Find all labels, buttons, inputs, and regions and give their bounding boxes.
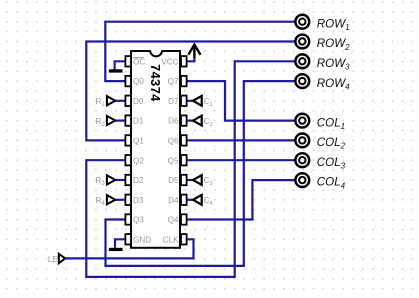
terminal COL4 [295, 173, 309, 187]
pin 9 Q3 [125, 214, 131, 224]
wire net ROW1 to Q0 [105, 22, 300, 81]
terminal ROW2 [295, 35, 309, 49]
svg-text:GND: GND [133, 235, 151, 244]
pin 20 VCC [181, 56, 187, 66]
wire C3 to D5 [186, 179, 194, 181]
input connector C3 [193, 175, 202, 185]
pin 13 D4 [181, 195, 187, 205]
pin 6 Q2 [125, 155, 131, 165]
pin 14 D5 [181, 175, 187, 185]
wire net COL2 to Q6 [186, 139, 300, 141]
svg-text:D3: D3 [133, 196, 144, 205]
svg-text:74374: 74374 [148, 64, 163, 102]
pin 4 D1 [125, 115, 131, 125]
svg-text:ROW1: ROW1 [317, 17, 350, 32]
pin 17 D6 [181, 115, 187, 125]
pin 10 GND [125, 234, 131, 244]
power symbol VCC arrow [188, 45, 200, 58]
op IC U1 74374 body [131, 49, 180, 247]
svg-text:Q6: Q6 [168, 137, 179, 146]
svg-text:D2: D2 [133, 176, 144, 185]
wire net COL3 to Q5 [186, 159, 300, 161]
svg-text:D4: D4 [168, 196, 179, 205]
terminal ROW3 [295, 54, 309, 68]
input connector C2 [193, 116, 202, 126]
svg-text:Q0: Q0 [133, 77, 144, 86]
pin label OC overline [133, 57, 143, 59]
pin 2 Q0 [125, 76, 131, 86]
ground symbol at GND [109, 248, 123, 251]
wire R1 to D0 [115, 100, 126, 102]
svg-text:D7: D7 [168, 97, 179, 106]
svg-text:LE: LE [48, 255, 59, 264]
input connector R4 [107, 195, 115, 204]
wire R2 to D1 [115, 119, 126, 121]
wire net ROW4 to Q3 [106, 81, 301, 266]
svg-text:CLK: CLK [163, 235, 179, 244]
wire GND pin to ground [115, 239, 126, 248]
svg-text:ROW2: ROW2 [317, 37, 350, 52]
input connector C4 [193, 195, 202, 205]
svg-text:Q7: Q7 [168, 77, 179, 86]
pin 18 D7 [181, 96, 187, 106]
wire net ROW3 to Q2 [86, 61, 300, 277]
svg-text:D6: D6 [168, 117, 179, 126]
ground symbol at OC [109, 69, 123, 72]
wire R3 to D2 [115, 179, 126, 181]
input connector C1 [193, 96, 202, 106]
svg-text:ROW3: ROW3 [317, 57, 350, 72]
pin 15 Q5 [181, 155, 187, 165]
input connector R2 [107, 116, 115, 125]
svg-text:ROW4: ROW4 [317, 77, 350, 92]
input connector R3 [107, 175, 115, 184]
wire OC pin to ground [115, 61, 126, 69]
svg-text:D0: D0 [133, 97, 144, 106]
pin 3 D0 [125, 96, 131, 106]
pin 12 Q4 [181, 214, 187, 224]
pin 1 OC [125, 56, 131, 66]
wire R4 to D3 [115, 199, 126, 201]
svg-text:Q5: Q5 [168, 156, 179, 165]
input connector R1 [107, 96, 115, 105]
svg-text:Q1: Q1 [133, 137, 144, 146]
pin 11 CLK [181, 234, 187, 244]
wire net COL1 to Q7 [186, 81, 300, 121]
terminal ROW4 [295, 74, 309, 88]
wire net ROW2 to Q1 [86, 42, 300, 141]
input connector LE [59, 254, 65, 263]
svg-text:OC: OC [133, 57, 145, 66]
wire net COL4 to Q4 [186, 180, 300, 219]
wire net LE to CLK [65, 239, 194, 258]
svg-text:VCC: VCC [161, 57, 178, 66]
wire VCC pin to power [186, 57, 194, 62]
pin 8 D3 [125, 195, 131, 205]
svg-text:Q3: Q3 [133, 216, 144, 225]
svg-text:Q2: Q2 [133, 156, 144, 165]
svg-text:Q4: Q4 [168, 216, 179, 225]
svg-text:D5: D5 [168, 176, 179, 185]
pin 7 D2 [125, 175, 131, 185]
terminal COL1 [295, 114, 309, 128]
svg-text:D1: D1 [133, 117, 144, 126]
pin 16 Q6 [181, 135, 187, 145]
pin 5 Q1 [125, 135, 131, 145]
wire C4 to D4 [186, 199, 194, 201]
wire C1 to D7 [186, 100, 194, 102]
pin 19 Q7 [181, 76, 187, 86]
terminal ROW1 [295, 15, 309, 29]
wire C2 to D6 [186, 119, 194, 121]
terminal COL3 [295, 153, 309, 167]
terminal COL2 [295, 134, 309, 148]
